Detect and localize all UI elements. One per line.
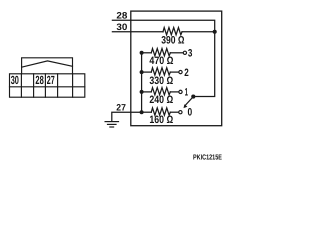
- connector housing top: [22, 58, 73, 74]
- switch contact 1: [179, 90, 182, 93]
- bus wire: [141, 53, 143, 112]
- resistor 160ohm: [151, 108, 170, 115]
- svg-text:470 Ω: 470 Ω: [149, 55, 173, 67]
- wire to contact 1: [170, 91, 179, 93]
- svg-text:390 Ω: 390 Ω: [161, 34, 184, 46]
- ground: [105, 122, 118, 127]
- switch contact 2: [179, 70, 182, 73]
- switch wiper arm: [185, 98, 192, 106]
- junction dot row 3: [140, 51, 144, 55]
- svg-text:3: 3: [188, 48, 193, 60]
- junction dot row 1: [140, 90, 144, 94]
- connector pin grid: [10, 74, 85, 97]
- svg-text:30: 30: [11, 73, 19, 87]
- switch contact 3: [183, 51, 186, 54]
- junction dot row 0 / node 27: [140, 110, 144, 114]
- wiper arrowhead: [184, 104, 188, 108]
- resistor 240ohm: [151, 88, 170, 95]
- junction dot row 2: [140, 70, 144, 74]
- ECU box: [131, 11, 222, 126]
- wire to junction: [182, 31, 215, 33]
- wire 27: [112, 112, 142, 121]
- wire row 3: [142, 52, 152, 54]
- svg-text:160 Ω: 160 Ω: [149, 114, 173, 126]
- wire 30: [112, 31, 163, 33]
- wire to contact 2: [170, 71, 179, 73]
- svg-text:27: 27: [116, 102, 126, 112]
- wire to contact 3: [170, 52, 183, 54]
- junction dot 28/30: [213, 30, 217, 34]
- switch contact 0: [179, 111, 182, 114]
- svg-text:240 Ω: 240 Ω: [149, 94, 173, 106]
- wire row 0: [142, 111, 152, 113]
- svg-text:2: 2: [184, 67, 189, 79]
- switch common wire: [195, 32, 215, 97]
- svg-text:28: 28: [35, 73, 44, 87]
- switch pivot dot: [191, 95, 195, 99]
- wire row 2: [142, 71, 152, 73]
- svg-text:1: 1: [185, 87, 188, 99]
- wire 28: [112, 20, 214, 30]
- resistor 390ohm: [163, 28, 182, 35]
- wire row 1: [142, 91, 152, 93]
- svg-text:28: 28: [116, 11, 127, 21]
- svg-text:PKIC1215E: PKIC1215E: [193, 152, 222, 161]
- svg-text:27: 27: [47, 73, 55, 87]
- wire to contact 0: [170, 111, 179, 113]
- svg-text:330 Ω: 330 Ω: [149, 75, 173, 87]
- resistor 330ohm: [151, 68, 170, 75]
- resistor 470ohm: [151, 49, 170, 56]
- svg-text:30: 30: [116, 22, 127, 32]
- svg-text:0: 0: [188, 107, 193, 119]
